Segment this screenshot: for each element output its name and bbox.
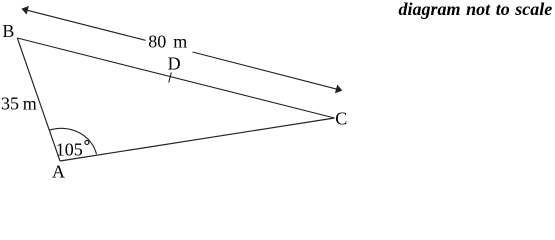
svg-text:105: 105 bbox=[56, 139, 83, 159]
svg-text:diagram not to scale: diagram not to scale bbox=[398, 0, 552, 19]
tick mark at D on BC bbox=[169, 73, 172, 83]
arrowhead right (points down-right) bbox=[335, 85, 343, 94]
svg-text:35: 35 bbox=[1, 94, 19, 114]
wire: triangle side BC through D bbox=[17, 38, 334, 118]
svg-text:A: A bbox=[52, 162, 65, 181]
svg-text:m: m bbox=[23, 94, 37, 114]
svg-text:D: D bbox=[168, 54, 181, 74]
angle arc at A (105 degrees) bbox=[50, 128, 97, 154]
wire: triangle side AB bbox=[17, 38, 60, 161]
svg-text:C: C bbox=[335, 109, 347, 129]
wire: triangle side AC bbox=[60, 118, 335, 161]
dimension arrow line, left segment bbox=[26, 10, 146, 40]
svg-text:80: 80 bbox=[148, 32, 166, 52]
arrowhead left (points up-left) bbox=[21, 6, 29, 15]
degree symbol of 105 bbox=[85, 141, 89, 145]
dimension arrow line, right segment bbox=[193, 52, 338, 89]
svg-text:m: m bbox=[173, 32, 187, 52]
svg-text:B: B bbox=[2, 21, 14, 41]
